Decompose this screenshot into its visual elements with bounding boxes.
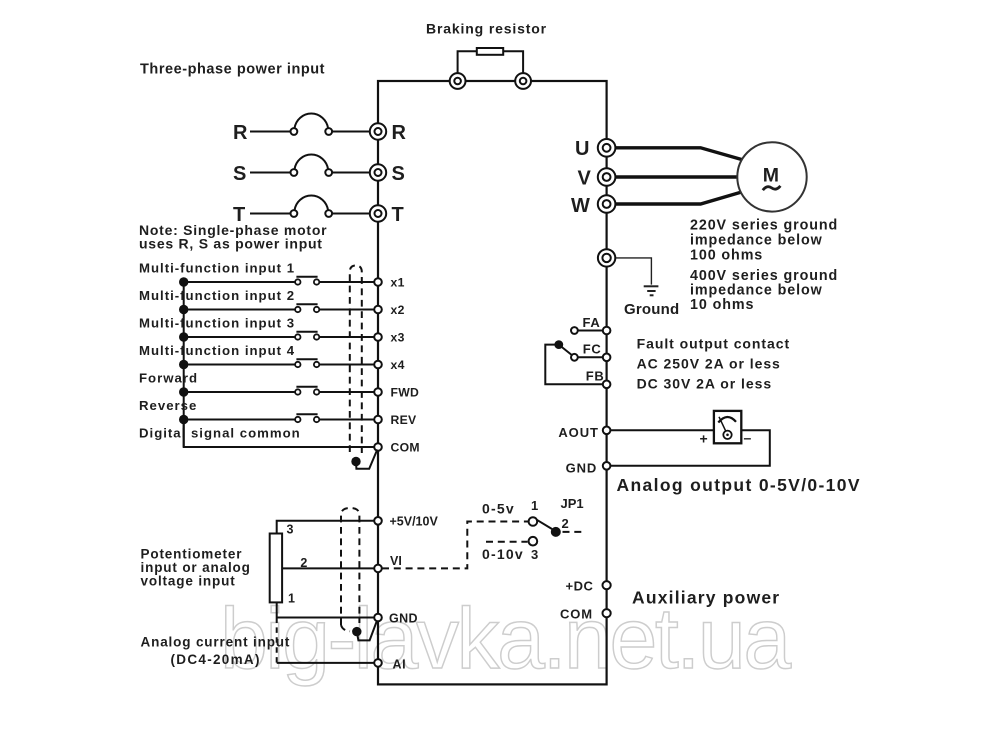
svg-text:Fault output contact: Fault output contact	[637, 336, 791, 352]
switch REV	[295, 414, 319, 422]
svg-text:100 ohms: 100 ohms	[690, 248, 763, 264]
svg-text:COM: COM	[560, 607, 593, 622]
wire T input	[250, 213, 294, 215]
wire x4 to terminal	[319, 364, 378, 366]
terminal REV	[374, 416, 382, 424]
node x3 junction	[179, 332, 188, 341]
svg-text:+DC: +DC	[566, 579, 594, 594]
terminal +DC	[603, 581, 611, 589]
terminal VI	[374, 565, 382, 573]
wire x1 to terminal	[319, 281, 378, 283]
ground symbol	[644, 286, 659, 295]
terminal GND right	[603, 462, 611, 470]
terminal B2	[515, 73, 531, 89]
label S left	[233, 163, 246, 185]
node x4 junction	[179, 360, 188, 369]
switch FWD	[295, 387, 319, 395]
label AOUT	[558, 425, 598, 440]
label x3	[391, 331, 405, 345]
wire FB	[545, 345, 603, 385]
wire AOUT to meter	[607, 429, 714, 431]
wire FA	[578, 330, 603, 332]
label +5V/10V	[390, 515, 439, 529]
svg-text:Braking resistor: Braking resistor	[426, 21, 547, 37]
label FWD	[391, 386, 420, 400]
label COM right	[560, 607, 593, 622]
wire x4	[184, 364, 295, 366]
svg-text:Multi-function input 1: Multi-function input 1	[139, 261, 295, 276]
shield loop analog	[341, 508, 359, 631]
meter	[714, 411, 741, 443]
svg-text:3: 3	[287, 523, 294, 537]
svg-text:DC 30V 2A or less: DC 30V 2A or less	[637, 376, 772, 392]
label W	[571, 195, 590, 217]
wire meter to GND	[607, 430, 770, 466]
wire FWD to terminal	[319, 391, 378, 393]
wire x1	[184, 281, 295, 283]
label FB	[586, 369, 605, 384]
wire x3 to terminal	[319, 336, 378, 338]
label jumper pin 3	[531, 547, 538, 562]
svg-text:0-5v: 0-5v	[482, 501, 515, 517]
note single-phase	[139, 222, 327, 251]
wire x2 to terminal	[319, 309, 378, 311]
terminal FWD	[374, 388, 382, 396]
wire T to terminal	[332, 213, 378, 215]
label Analog current input	[141, 635, 291, 668]
wire VI dashed to JP1	[382, 522, 528, 569]
svg-text:Analog output 0-5V/0-10V: Analog output 0-5V/0-10V	[617, 475, 861, 495]
svg-text:S: S	[392, 163, 405, 185]
node REV junction	[179, 415, 188, 424]
wire W to motor	[607, 192, 743, 204]
svg-text:3: 3	[531, 547, 538, 562]
svg-text:uses R, S as power input: uses R, S as power input	[139, 235, 323, 251]
wire FC	[578, 356, 603, 358]
label Auxiliary power	[632, 588, 780, 608]
svg-text:2: 2	[300, 556, 307, 570]
shield drain dot digital	[351, 457, 360, 466]
label VI	[390, 554, 402, 568]
node x1 junction	[179, 277, 188, 286]
label FC	[583, 342, 602, 357]
label Ground	[624, 301, 679, 318]
wire REV	[184, 419, 295, 421]
label meter minus	[744, 430, 752, 446]
relay FA contact	[571, 327, 578, 334]
label GND analog	[389, 612, 418, 626]
wire REV to terminal	[319, 419, 378, 421]
svg-text:VI: VI	[390, 554, 402, 568]
breaker T	[291, 195, 333, 216]
label R left	[233, 122, 248, 144]
terminal T	[370, 205, 386, 221]
wire pot bottom	[276, 602, 278, 617]
terminal AOUT	[603, 427, 611, 435]
svg-text:220V series ground: 220V series ground	[690, 218, 838, 234]
terminal FC	[603, 354, 611, 362]
label pin 1	[288, 591, 295, 605]
svg-text:1: 1	[288, 591, 295, 605]
svg-text:Auxiliary power: Auxiliary power	[632, 588, 780, 608]
wire shield to COM	[356, 450, 377, 469]
svg-text:10 ohms: 10 ohms	[690, 297, 754, 313]
label 0-5v	[482, 501, 515, 517]
terminal x1	[374, 278, 382, 286]
label GND right	[566, 461, 598, 476]
svg-text:M: M	[763, 165, 779, 187]
svg-text:GND: GND	[389, 612, 418, 626]
wire R to terminal	[332, 131, 378, 133]
wire dashed GND to AI	[276, 618, 278, 663]
relay blade	[559, 345, 572, 355]
label COM digital	[391, 441, 420, 455]
digital input bus	[183, 282, 185, 447]
label Reverse	[139, 398, 197, 413]
svg-text:x2: x2	[391, 303, 405, 317]
jumper pin 1	[529, 517, 538, 526]
label x2	[391, 303, 405, 317]
wire +5V to pot	[277, 521, 378, 534]
switch x4	[295, 359, 319, 367]
switch x2	[295, 304, 319, 312]
svg-text:0-10v: 0-10v	[482, 546, 524, 562]
terminal x4	[374, 361, 382, 369]
shield loop digital inputs	[350, 266, 362, 454]
potentiometer body	[270, 534, 282, 603]
svg-text:FA: FA	[583, 315, 601, 330]
label 220V series ground	[690, 218, 838, 264]
terminal FA	[603, 327, 611, 335]
jumper pin 3	[529, 537, 538, 546]
svg-text:(DC4-20mA): (DC4-20mA)	[171, 652, 261, 667]
label T terminal	[392, 204, 404, 226]
svg-text:1: 1	[531, 498, 538, 513]
label AI	[393, 658, 407, 672]
wire COM row	[184, 420, 378, 448]
label x1	[391, 276, 405, 290]
terminal W	[598, 195, 616, 213]
label x4	[391, 358, 405, 372]
svg-text:JP1: JP1	[561, 496, 584, 511]
svg-text:Analog current input: Analog current input	[141, 635, 291, 650]
label Potentiometer input	[141, 547, 251, 589]
wire S input	[250, 172, 294, 174]
svg-text:x4: x4	[391, 358, 405, 372]
terminal V	[598, 168, 616, 186]
svg-text:impedance below: impedance below	[690, 283, 823, 299]
label jumper pin 1	[531, 498, 538, 513]
terminal S	[370, 164, 386, 180]
wire braking resistor left	[458, 51, 477, 81]
svg-text:–: –	[744, 430, 752, 446]
switch x1	[295, 277, 319, 285]
svg-text:S: S	[233, 163, 246, 185]
jumper blade	[537, 520, 552, 529]
node x2 junction	[179, 305, 188, 314]
wire V to motor	[607, 175, 738, 178]
svg-text:2: 2	[562, 516, 569, 531]
label jumper pin 2	[562, 516, 569, 531]
terminal x2	[374, 306, 382, 314]
label V	[578, 168, 592, 190]
label 400V series ground	[690, 268, 838, 313]
svg-text:FWD: FWD	[391, 386, 420, 400]
terminal FB	[603, 381, 611, 389]
breaker R	[291, 113, 333, 134]
svg-text:U: U	[575, 138, 589, 160]
terminal COM digital	[374, 443, 382, 451]
terminal AI	[374, 659, 382, 667]
label R terminal	[392, 122, 407, 144]
svg-text:AOUT: AOUT	[558, 425, 598, 440]
svg-text:Three-phase power input: Three-phase power input	[140, 62, 325, 78]
svg-text:W: W	[571, 195, 590, 217]
label meter plus	[700, 431, 708, 447]
svg-text:Multi-function input 2: Multi-function input 2	[139, 288, 295, 303]
watermark big-lavka.net.ua	[220, 591, 791, 687]
svg-text:+: +	[700, 431, 708, 447]
resistor braking	[477, 48, 503, 55]
label Multi-function input 1	[139, 261, 295, 276]
label Multi-function input 2	[139, 288, 295, 303]
inverter box	[378, 81, 607, 684]
label pin 3	[287, 523, 294, 537]
label Three-phase power input	[140, 62, 325, 78]
wire ground	[607, 258, 652, 285]
label 0-10v	[482, 546, 524, 562]
svg-text:V: V	[578, 168, 592, 190]
svg-text:Ground: Ground	[624, 301, 679, 318]
svg-text:AC 250V 2A or less: AC 250V 2A or less	[637, 356, 781, 372]
wire dashed stub pin 2	[563, 531, 585, 533]
label pin 2	[300, 556, 307, 570]
wire U to motor	[607, 148, 743, 160]
relay common dot	[554, 340, 563, 349]
label Multi-function input 3	[139, 316, 295, 331]
jumper pin 2	[551, 527, 561, 537]
wire GND row	[277, 617, 378, 619]
terminal U	[598, 139, 616, 157]
svg-text:400V series ground: 400V series ground	[690, 268, 838, 284]
label S terminal	[392, 163, 405, 185]
label Digital signal common	[139, 426, 301, 441]
terminal B1	[450, 73, 466, 89]
label Multi-function input 4	[139, 343, 295, 358]
wire AI row	[277, 662, 378, 664]
svg-text:Reverse: Reverse	[139, 398, 197, 413]
label Analog output	[617, 475, 861, 495]
svg-text:FB: FB	[586, 369, 605, 384]
svg-text:Digital signal common: Digital signal common	[139, 426, 301, 441]
svg-text:R: R	[233, 122, 248, 144]
svg-text:REV: REV	[391, 413, 418, 427]
wire shield to GND	[357, 620, 377, 640]
label Braking resistor	[426, 21, 547, 37]
svg-text:AI: AI	[393, 658, 407, 672]
wire dashed pin 3	[486, 541, 528, 543]
terminal COM right	[603, 609, 611, 617]
shield drain dot analog	[352, 627, 361, 636]
svg-text:Forward: Forward	[139, 371, 198, 386]
motor M	[737, 142, 806, 211]
wire pot wiper VI	[282, 567, 378, 569]
svg-text:+5V/10V: +5V/10V	[390, 515, 439, 529]
wire braking resistor right	[503, 51, 523, 81]
label +DC	[566, 579, 594, 594]
wire S to terminal	[332, 172, 378, 174]
label REV	[391, 413, 418, 427]
svg-text:Multi-function input 4: Multi-function input 4	[139, 343, 295, 358]
breaker S	[291, 154, 333, 175]
wire x3	[184, 336, 295, 338]
label FA	[583, 315, 601, 330]
relay FC contact	[571, 354, 578, 361]
terminal +5V/10V	[374, 517, 382, 525]
svg-text:x3: x3	[391, 331, 405, 345]
label U	[575, 138, 589, 160]
label JP1	[561, 496, 584, 511]
label Fault output contact	[637, 336, 791, 392]
svg-text:GND: GND	[566, 461, 598, 476]
wire FWD	[184, 391, 295, 393]
svg-text:voltage input: voltage input	[141, 573, 236, 588]
label Forward	[139, 371, 198, 386]
terminal x3	[374, 333, 382, 341]
switch x3	[295, 332, 319, 340]
wire R input	[250, 131, 294, 133]
svg-text:T: T	[392, 204, 404, 226]
svg-text:FC: FC	[583, 342, 602, 357]
terminal ground	[598, 249, 615, 266]
svg-text:Multi-function input 3: Multi-function input 3	[139, 316, 295, 331]
terminal R	[370, 123, 386, 139]
svg-text:R: R	[392, 122, 407, 144]
svg-text:COM: COM	[391, 441, 420, 455]
terminal GND analog	[374, 614, 382, 622]
node FWD junction	[179, 387, 188, 396]
wire x2	[184, 309, 295, 311]
label T left	[233, 204, 245, 226]
svg-text:impedance below: impedance below	[690, 233, 823, 249]
svg-text:x1: x1	[391, 276, 405, 290]
